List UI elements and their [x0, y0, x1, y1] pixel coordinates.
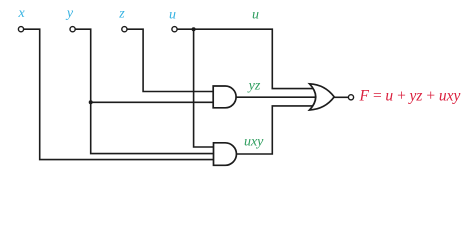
svg-text:z: z: [118, 7, 125, 22]
wire y branch : to top AND gate lower input: [91, 101, 216, 103]
junction on y wire: [89, 100, 93, 104]
and-gate U1 (yz): [213, 86, 236, 108]
svg-text:yz: yz: [247, 78, 261, 93]
terminal y: [70, 27, 75, 32]
wire u branch : down to bottom AND gate top input: [194, 29, 216, 147]
terminal u: [172, 27, 177, 32]
svg-text:F = u + yz + uxy: F = u + yz + uxy: [359, 87, 461, 104]
wire yz : top AND gate output to OR gate middle input: [234, 96, 317, 98]
or-gate U3: [310, 84, 335, 110]
svg-text:uxy: uxy: [244, 135, 264, 150]
svg-text:u: u: [252, 8, 259, 23]
wire F : OR gate output to terminal: [333, 96, 348, 98]
terminal z: [122, 27, 127, 32]
svg-text:u: u: [169, 7, 176, 22]
svg-text:y: y: [65, 6, 74, 21]
wire z : terminal to top AND gate upper input: [127, 29, 216, 91]
junction on u wire: [192, 27, 196, 31]
and-gate U2 (uxy): [214, 143, 237, 166]
svg-text:x: x: [17, 6, 25, 21]
wire uxy : bottom AND gate output up to OR gate bottom input: [234, 106, 316, 154]
terminal F output: [348, 95, 353, 100]
wire u : terminal across top, down to OR gate top input: [177, 29, 316, 88]
terminal x: [18, 27, 23, 32]
wire x : terminal to bottom AND gate input: [24, 29, 216, 159]
wire y : terminal down to bottom AND gate input: [75, 29, 216, 153]
